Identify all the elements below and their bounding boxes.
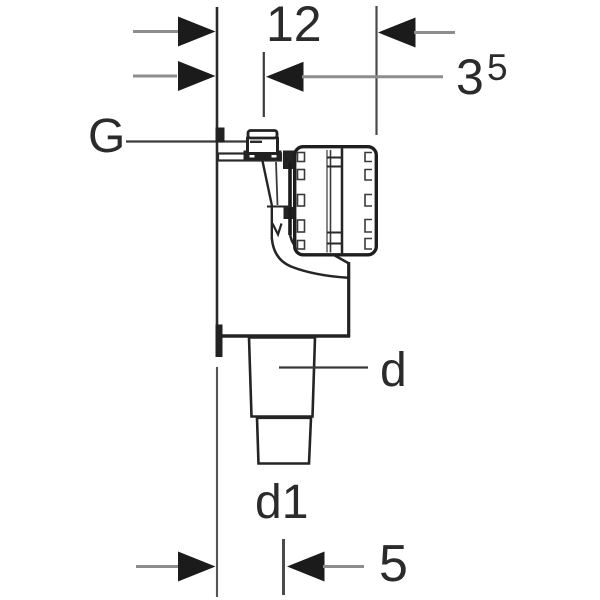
- nut base band: [244, 151, 282, 161]
- inlet nut body: [248, 137, 278, 154]
- funnel inner line: [276, 162, 278, 205]
- funnel right edge: [288, 162, 292, 235]
- housing clip window R2: [365, 170, 372, 181]
- svg-text:G: G: [88, 110, 125, 163]
- extension line x376: [375, 6, 377, 135]
- tube V notch: [273, 224, 282, 235]
- wall reference line upper: [216, 7, 219, 357]
- housing seam line c: [341, 148, 344, 255]
- svg-text:d1: d1: [255, 476, 308, 529]
- svg-text:5: 5: [487, 47, 508, 88]
- dim 12 left tail: [133, 30, 179, 33]
- dim 5 left tail: [136, 565, 179, 568]
- flush pipe upper wall: [290, 234, 319, 254]
- outlet pipe d: [249, 338, 315, 417]
- svg-text:d: d: [380, 344, 407, 397]
- wall clip upper: [216, 128, 225, 143]
- leader line G tip inside nut: [250, 141, 262, 143]
- svg-text:5: 5: [379, 535, 408, 593]
- leader line d: [279, 366, 368, 368]
- flush pipe lower wall: [272, 238, 348, 278]
- wall clip lower: [216, 325, 223, 358]
- dim 12 right arrow: [378, 18, 416, 48]
- svg-text:3: 3: [456, 49, 484, 105]
- dim 12 right tail: [414, 31, 455, 34]
- body bottom edge: [216, 334, 350, 338]
- nut base white notch right: [272, 154, 277, 158]
- housing seam line b: [330, 150, 332, 253]
- housing clip window L4: [298, 220, 305, 232]
- housing seam line a: [326, 150, 328, 253]
- flush pipe upper wall outlet: [333, 255, 349, 264]
- dim 35 right tail: [302, 75, 443, 78]
- dim 5 right arrow: [287, 552, 325, 582]
- dim 12 left arrow: [178, 17, 216, 47]
- mounting plate: [218, 154, 281, 161]
- funnel bottom line: [267, 206, 290, 208]
- housing clip window R3: [365, 195, 372, 207]
- funnel left edge: [263, 161, 273, 206]
- dim 35 right arrow: [266, 62, 304, 92]
- housing seam tick 2: [327, 166, 342, 168]
- housing clip window L5: [298, 241, 305, 250]
- dim 35 left arrow: [178, 61, 216, 91]
- housing seam tick 3: [327, 232, 342, 234]
- leader line G: [126, 140, 261, 142]
- housing seam tick 1: [327, 157, 342, 159]
- housing clip window R4: [365, 220, 372, 233]
- inlet nut cap: [248, 131, 277, 139]
- housing seam tick 4: [327, 243, 342, 245]
- tube left edge: [271, 206, 273, 239]
- nut base white notch left: [250, 154, 255, 158]
- outlet pipe d1: [257, 418, 311, 464]
- extension tick x263: [263, 52, 265, 117]
- dim 5 left arrow: [178, 552, 216, 582]
- connector stub upper: [283, 151, 296, 170]
- housing clip window L1: [298, 153, 305, 162]
- extension tick x283 bottom: [282, 539, 285, 595]
- housing clip window R5: [365, 239, 372, 250]
- wall reference line lower: [216, 367, 218, 597]
- connector stub lower: [284, 207, 295, 219]
- body right edge: [347, 262, 350, 337]
- housing clip window L3: [298, 195, 305, 207]
- dim 35 left tail: [133, 75, 177, 78]
- dim 5 right tail: [323, 565, 364, 568]
- valve housing: [295, 147, 377, 255]
- housing clip window R1: [365, 153, 372, 162]
- housing clip window L2: [298, 170, 305, 180]
- svg-text:12: 12: [266, 0, 322, 52]
